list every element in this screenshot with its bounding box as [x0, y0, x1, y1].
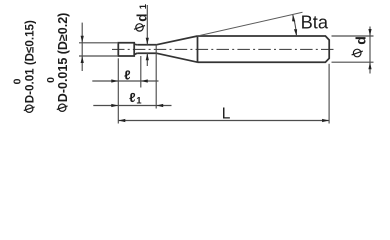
svg-text:1: 1	[136, 95, 142, 106]
svg-text:d: d	[134, 14, 149, 22]
Bta angle arc	[293, 15, 297, 36]
svg-text:D-0.01 (D≤0.15): D-0.01 (D≤0.15)	[24, 20, 37, 103]
dim l1: dimension line	[93, 105, 171, 107]
dim phi-d dimension line	[369, 27, 371, 74]
dim phi-D extension lines (tip)	[79, 43, 117, 56]
dim phi-d1 arrowheads	[146, 38, 149, 60]
svg-text:1: 1	[138, 3, 149, 9]
tip-to-neck connector	[134, 44, 137, 54]
label phi-d1	[136, 24, 143, 31]
dim phi-d1 arrow shafts	[146, 5, 148, 66]
label phi-d	[353, 49, 361, 57]
shank with chamfered end	[198, 36, 330, 62]
dim phi-d extension lines (shank)	[332, 36, 374, 62]
cutting tip rectangle	[118, 43, 134, 56]
tool body outline (tip, neck, taper, shank)	[118, 36, 329, 62]
dim L: dimension line	[118, 120, 329, 122]
dim l arrowheads	[111, 79, 148, 82]
extension line L right (shank end)	[328, 64, 330, 124]
svg-text:0: 0	[45, 77, 57, 83]
dim l: dimension line	[92, 80, 158, 82]
svg-text:d: d	[352, 36, 368, 45]
svg-text:D-0.015 (D≥0.2): D-0.015 (D≥0.2)	[56, 13, 70, 103]
neck section	[137, 45, 156, 53]
Bta arc arrowhead upper	[292, 15, 295, 22]
tolerance text column 1: phiD-0.01 (D<=0.15)	[26, 105, 33, 112]
dim L arrowheads	[118, 119, 329, 122]
svg-text:ℓ: ℓ	[129, 90, 135, 105]
extension line B (flute end)	[140, 56, 142, 88]
tolerance text column 2: phiD-0.015 (D>=0.2)	[59, 104, 66, 111]
extension line C (neck end)	[155, 45, 157, 109]
tolerance sup zero 1	[11, 78, 23, 84]
Bta taper reference line	[198, 12, 303, 36]
dim phi-D dimension line	[81, 23, 83, 71]
svg-text:0: 0	[11, 78, 23, 84]
dim phi-D arrowheads	[81, 36, 84, 63]
Bta arc arrowhead lower	[294, 29, 297, 36]
taper section	[156, 36, 197, 62]
dim l1 arrowheads	[111, 104, 163, 107]
centerline axis	[112, 48, 334, 50]
svg-text:L: L	[222, 105, 231, 122]
extension line A (tool left end)	[117, 58, 119, 123]
svg-text:Bta: Bta	[301, 12, 329, 33]
taper/shank junction line	[197, 36, 199, 62]
svg-text:ℓ: ℓ	[124, 67, 130, 82]
dim phi-d arrowheads	[368, 29, 371, 69]
tolerance sup zero 2	[45, 77, 57, 83]
